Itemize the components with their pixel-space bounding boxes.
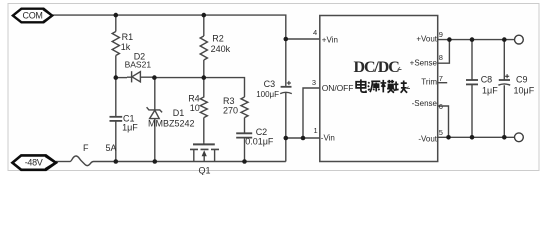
svg-text:-Sense: -Sense: [412, 99, 438, 108]
terminal COM: [13, 9, 52, 23]
wire -Vin: [286, 137, 320, 139]
wire R1 bottom lead: [115, 56, 117, 78]
terminal -output circle: [515, 133, 524, 142]
node top rail R2: [202, 13, 207, 18]
svg-text:270: 270: [223, 106, 238, 116]
svg-text:-Vout: -Vout: [418, 135, 437, 144]
node -Vout C9: [502, 135, 507, 140]
wire Trim stub: [438, 82, 448, 84]
wire C8 leads: [471, 40, 473, 138]
wire R2 top lead: [203, 16, 205, 36]
svg-text:6: 6: [439, 102, 443, 111]
capacitor C1: [110, 117, 123, 121]
wire bottom rail: [56, 161, 70, 163]
terminal +output circle: [515, 35, 524, 44]
svg-text:R1: R1: [122, 32, 134, 42]
node row R2/R4: [202, 75, 207, 80]
wire ON/OFF: [303, 88, 320, 138]
svg-text:10μF: 10μF: [514, 86, 535, 96]
svg-text:F: F: [83, 143, 89, 153]
svg-text:1μF: 1μF: [482, 86, 498, 96]
node -Vin ON/OFF: [301, 136, 306, 141]
wire C3 upper lead: [285, 39, 287, 87]
wire R3 bottom lead: [244, 118, 246, 134]
mark after title: [398, 67, 402, 70]
plus mark C9: [505, 74, 509, 78]
capacitor C3 plates: [280, 87, 292, 94]
capacitor C9 plates: [498, 80, 510, 85]
svg-text:BAS21: BAS21: [125, 60, 152, 70]
wire C1 bottom lead: [115, 121, 117, 162]
node bottom rail C1: [114, 159, 119, 164]
wire C3 lower lead: [285, 93, 287, 139]
svg-text:240k: 240k: [211, 44, 231, 54]
svg-text:COM: COM: [23, 10, 43, 20]
node +Vin: [284, 37, 289, 42]
svg-text:1μF: 1μF: [122, 123, 138, 133]
svg-text:9: 9: [439, 30, 443, 39]
label 模: [381, 80, 395, 93]
wire D1 bottom lead: [154, 119, 156, 162]
svg-text:1: 1: [314, 126, 318, 135]
resistor R2: [200, 36, 207, 60]
resistor R1: [112, 32, 119, 56]
svg-text:C8: C8: [481, 75, 493, 85]
node bottom rail D1: [153, 159, 158, 164]
resistor R3: [241, 97, 248, 118]
wire C9 leads: [503, 40, 505, 138]
node row R1/D2: [114, 75, 119, 80]
node +Vout C9: [502, 37, 507, 42]
svg-text:8: 8: [439, 53, 443, 62]
wire +Vin: [286, 38, 320, 40]
svg-text:Q1: Q1: [199, 166, 211, 176]
wire +Vout rail: [438, 39, 515, 41]
wire C2 bottom lead: [244, 138, 246, 162]
wire R2 bottom lead: [203, 60, 205, 78]
wire node row left: [116, 77, 127, 79]
fuse F: [70, 156, 94, 166]
label 块: [394, 80, 408, 92]
svg-text:-Vin: -Vin: [321, 134, 335, 143]
svg-text:R2: R2: [212, 34, 224, 44]
svg-text:+Vout: +Vout: [416, 35, 437, 44]
mark after module label: [407, 87, 410, 89]
zener D1: [147, 107, 163, 118]
capacitor C8: [466, 80, 478, 84]
wire +Sense: [438, 40, 450, 64]
wire node row right: [204, 78, 245, 97]
svg-text:5: 5: [439, 128, 443, 137]
svg-text:3: 3: [312, 78, 316, 87]
label 源: [368, 81, 381, 92]
svg-text:R3: R3: [223, 96, 235, 106]
node -Vin C3: [284, 136, 289, 141]
svg-text:10: 10: [190, 103, 200, 113]
wire D1 top lead: [154, 78, 156, 110]
wire top rail: [52, 15, 286, 39]
node -Vout C8: [470, 135, 475, 140]
svg-text:-48V: -48V: [25, 158, 43, 168]
svg-text:D1: D1: [173, 108, 185, 118]
svg-text:C3: C3: [264, 79, 276, 89]
svg-text:+Sense: +Sense: [410, 59, 438, 68]
wire node row mid: [154, 77, 203, 79]
svg-text:C2: C2: [256, 127, 268, 137]
svg-text:100μF: 100μF: [256, 90, 279, 99]
svg-text:R4: R4: [188, 94, 200, 104]
svg-text:MMBZ5242: MMBZ5242: [148, 119, 195, 129]
label 电: [356, 79, 366, 92]
resistor R4: [200, 78, 207, 118]
wire R4 bottom lead: [203, 118, 205, 143]
node top rail R1: [114, 13, 119, 18]
transistor Q1: [190, 143, 219, 162]
node bottom rail C2: [242, 159, 247, 164]
wire C1 top lead: [115, 78, 117, 117]
wire -Vout rail: [438, 136, 515, 138]
svg-text:4: 4: [313, 28, 317, 37]
wire R1 top lead: [115, 15, 117, 31]
wire -Sense: [438, 106, 449, 137]
svg-text:5A: 5A: [106, 143, 117, 153]
svg-text:Trim: Trim: [421, 78, 437, 87]
svg-text:+Vin: +Vin: [322, 36, 338, 45]
terminal -48V: [12, 155, 56, 169]
wire bottom rail main: [94, 161, 286, 163]
capacitor C2: [236, 133, 252, 137]
node +Vout C8: [470, 37, 475, 42]
svg-text:0.01μF: 0.01μF: [245, 137, 274, 147]
diode D2: [127, 71, 154, 82]
svg-text:C9: C9: [516, 75, 528, 85]
module U1 DC/DC box: [320, 16, 438, 162]
wire bottom rail riser: [285, 138, 287, 162]
plus mark C3: [287, 81, 291, 85]
svg-text:7: 7: [439, 74, 443, 83]
svg-text:ON/OFF: ON/OFF: [322, 83, 354, 93]
node -Vout sense: [446, 135, 451, 140]
node +Vout sense: [447, 37, 452, 42]
svg-text:DC/DC: DC/DC: [354, 59, 400, 76]
svg-text:1k: 1k: [121, 42, 131, 52]
node row D1: [152, 75, 157, 80]
